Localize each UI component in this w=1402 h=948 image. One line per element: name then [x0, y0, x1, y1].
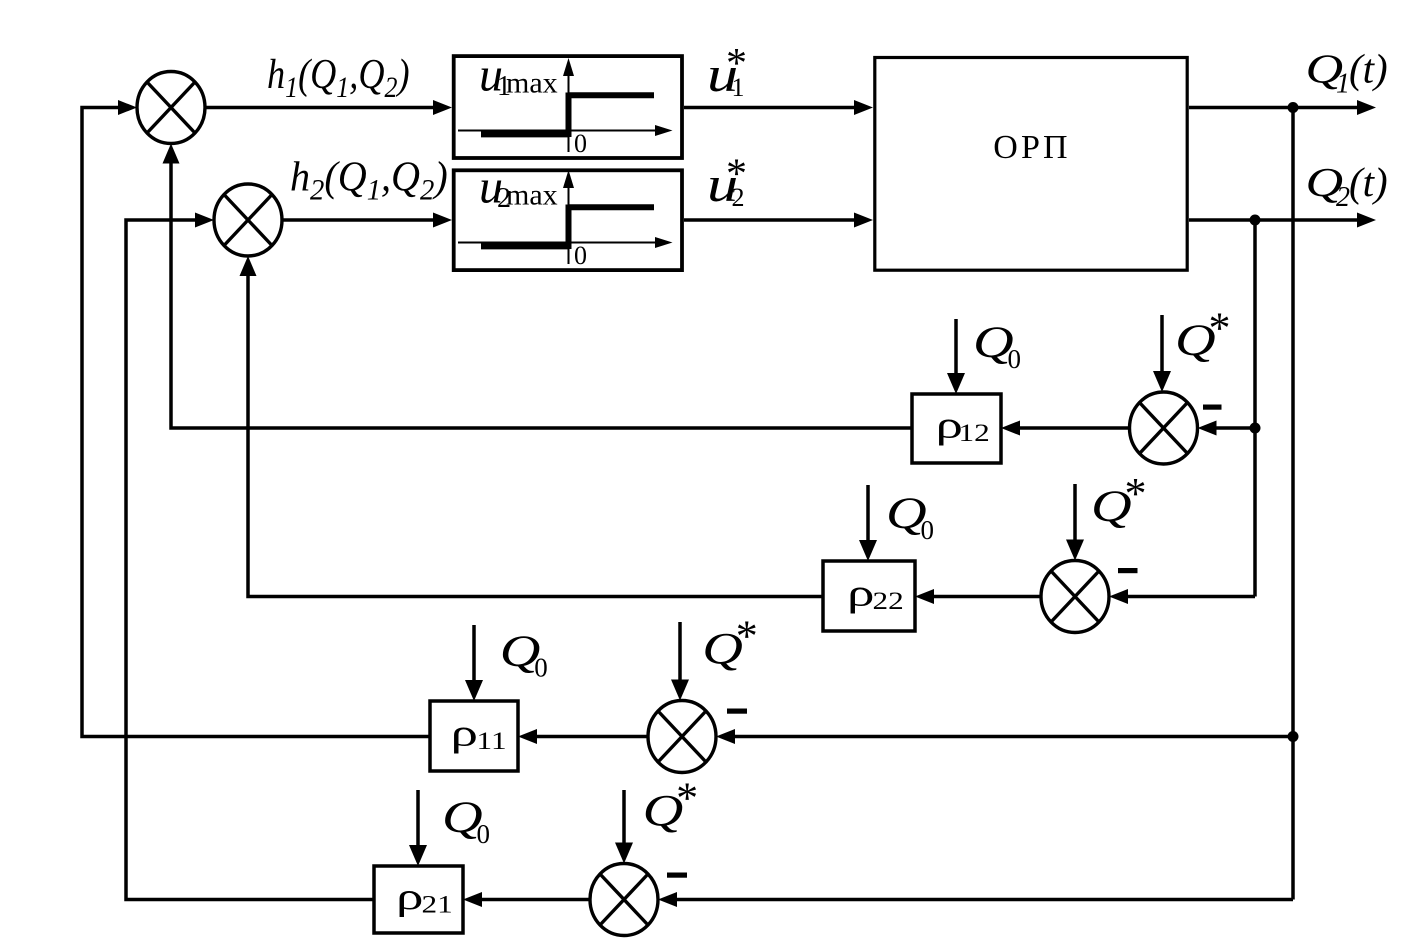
- label Qstar at S22: [1091, 481, 1132, 530]
- wire Q1 feedback to S21: [676, 898, 1293, 902]
- arrowhead into rho21: [463, 892, 482, 907]
- svg-text:12: 12: [959, 420, 990, 447]
- summator S21 (rho21 row circle): [590, 864, 658, 936]
- wire B1 to ORP: [684, 106, 855, 110]
- wire Q2 feedback to S12: [1215, 426, 1255, 430]
- wire rho12 output to M1 bottom input: [171, 162, 912, 429]
- svg-text:*: *: [726, 41, 747, 87]
- wire ORP output Q2: [1189, 218, 1357, 222]
- svg-text:21: 21: [422, 891, 453, 918]
- block rho21 frame: [374, 866, 463, 933]
- summator M1 (top-left circle): [137, 72, 205, 144]
- wire Qstar arrow into S22: [1073, 484, 1077, 542]
- svg-text:2: 2: [1336, 182, 1350, 213]
- saturation block B2 frame: [454, 170, 682, 270]
- arrowhead into rho12: [1001, 421, 1020, 436]
- label Q0 at rho22: [886, 488, 927, 537]
- wire Q0 arrow into rho21: [416, 790, 420, 848]
- svg-text:ρ: ρ: [451, 713, 479, 755]
- arrowhead into S12: [1198, 421, 1217, 436]
- label Q1(t): [1306, 47, 1344, 92]
- minus sign at S21: [667, 873, 687, 878]
- svg-text:*: *: [736, 612, 758, 661]
- label Q0 at rho11: [500, 626, 541, 675]
- wire Q0 arrow into rho12: [954, 319, 958, 376]
- wire S22 to rho22: [933, 595, 1041, 599]
- arrowhead into S21: [658, 892, 677, 907]
- arrowhead into S11: [716, 729, 735, 744]
- wire S12 to rho12: [1019, 426, 1130, 430]
- wire ORP output Q1: [1189, 106, 1357, 110]
- arrowhead M2 bottom input: [240, 256, 257, 276]
- svg-text:22: 22: [873, 588, 904, 615]
- wire Q1 feedback vertical: [1291, 108, 1295, 900]
- arrowhead into B1: [433, 100, 452, 115]
- wire M2 to B2: [282, 218, 434, 222]
- wire S21 to rho21: [481, 898, 590, 902]
- wire M1 to B1: [205, 106, 434, 110]
- wire Qstar arrow into S12: [1160, 315, 1164, 374]
- wire Qstar arrow into S11: [678, 622, 682, 682]
- minus sign at S22: [1118, 568, 1138, 573]
- svg-text:ОРП: ОРП: [993, 129, 1071, 166]
- arrowhead Q0 into rho11: [465, 680, 483, 701]
- label u2 star: [707, 158, 738, 213]
- summator S12 (rho12 row circle): [1130, 392, 1198, 464]
- label u1 star: [707, 48, 738, 103]
- svg-text:1: 1: [1336, 69, 1350, 100]
- svg-text:(t): (t): [1349, 46, 1388, 92]
- svg-text:*: *: [676, 774, 698, 823]
- svg-text:0: 0: [921, 515, 935, 545]
- label Qstar at S11: [702, 624, 743, 673]
- block rho12 frame: [912, 394, 1001, 463]
- svg-text:ρ: ρ: [396, 876, 424, 918]
- wire Q2 feedback vertical: [1253, 220, 1257, 597]
- saturation graph inside B1: [458, 66, 659, 152]
- svg-text:ρ: ρ: [847, 573, 875, 615]
- arrowhead into ORP input 1: [854, 100, 873, 115]
- label Qstar at S21: [643, 786, 684, 835]
- svg-text:11: 11: [477, 728, 507, 755]
- wire rho11 output to M1 left input: [82, 108, 430, 737]
- wire B2 to ORP: [684, 218, 855, 222]
- block rho11 frame: [430, 701, 518, 771]
- minus sign at S12: [1203, 405, 1222, 410]
- arrowhead Q0 into rho21: [409, 845, 427, 866]
- arrowhead into rho11: [518, 729, 537, 744]
- saturation block B1 frame: [454, 56, 682, 158]
- wire rho22 output to M2 bottom input: [248, 274, 823, 597]
- svg-text:max: max: [506, 179, 558, 212]
- junction dot on Q2 feedback at S12 row: [1250, 423, 1261, 434]
- label h2(Q1,Q2): [290, 153, 448, 207]
- junction dot on Q2 output: [1250, 215, 1261, 226]
- label h1(Q1,Q2): [267, 52, 410, 105]
- svg-text:*: *: [1125, 469, 1147, 518]
- arrowhead into S22: [1109, 589, 1128, 604]
- label rho11: [451, 713, 479, 755]
- junction dot on Q1 output: [1288, 102, 1299, 113]
- wire Q1 feedback to S11: [734, 735, 1293, 739]
- summator M2 (second circle): [214, 184, 282, 256]
- junction dot on Q1 feedback at S11 row: [1288, 731, 1299, 742]
- arrowhead Q0 into rho22: [859, 540, 877, 561]
- arrowhead M1 bottom input: [163, 144, 180, 164]
- arrowhead Q1 output: [1357, 100, 1376, 115]
- label rho22: [847, 573, 875, 615]
- svg-text:0: 0: [534, 653, 548, 683]
- arrowhead into ORP input 2: [854, 213, 873, 228]
- summator S11 (rho11 row circle): [648, 701, 716, 773]
- arrowhead Qstar into S22: [1066, 540, 1084, 561]
- label rho21: [396, 876, 424, 918]
- summator S22 (rho22 row circle): [1041, 561, 1109, 633]
- svg-text:0: 0: [477, 819, 491, 849]
- label Q0 at rho21: [442, 792, 483, 841]
- label Q0 at rho12: [973, 317, 1014, 366]
- wire Qstar arrow into S21: [622, 790, 626, 845]
- minus sign at S11: [727, 709, 747, 714]
- wire rho21 output to M2 left input: [126, 220, 374, 900]
- svg-text:max: max: [506, 67, 558, 100]
- label Qstar at S12: [1175, 316, 1216, 365]
- arrowhead M2 left input: [195, 213, 214, 228]
- arrowhead Q2 output: [1357, 213, 1376, 228]
- arrowhead Qstar into S12: [1153, 371, 1171, 392]
- svg-text:0: 0: [1008, 344, 1022, 374]
- arrowhead Qstar into S11: [671, 680, 689, 701]
- svg-text:*: *: [1209, 303, 1231, 352]
- wire S11 to rho11: [536, 735, 648, 739]
- arrowhead M1 left input: [118, 100, 137, 115]
- svg-text:0: 0: [574, 129, 587, 158]
- label rho12: [936, 405, 964, 447]
- wire Q2 feedback to S22: [1127, 595, 1255, 599]
- arrowhead into B2: [433, 213, 452, 228]
- wire Q0 arrow into rho11: [472, 625, 476, 683]
- label Q2(t): [1306, 160, 1344, 205]
- svg-text:*: *: [726, 151, 747, 197]
- svg-text:0: 0: [574, 241, 587, 270]
- arrowhead Qstar into S21: [615, 843, 633, 864]
- block rho22 frame: [823, 561, 915, 631]
- saturation graph inside B2: [458, 178, 659, 264]
- arrowhead Q0 into rho12: [947, 373, 965, 394]
- block ORP frame: [875, 58, 1187, 271]
- svg-text:(t): (t): [1349, 159, 1388, 205]
- arrowhead into rho22: [915, 589, 934, 604]
- wire Q0 arrow into rho22: [866, 485, 870, 543]
